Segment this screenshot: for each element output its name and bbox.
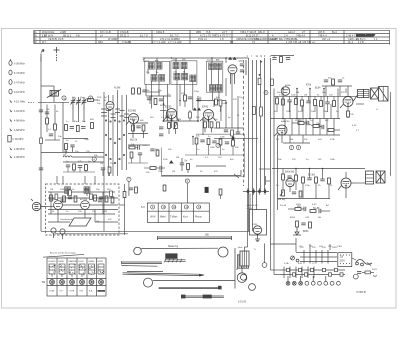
dial pulley P2 [218,247,228,257]
svg-text:1M: 1M [100,163,103,165]
dial right column [235,248,249,289]
oscillator coil L4 [63,154,80,158]
svg-text:4 68 MHz: 4 68 MHz [14,129,25,132]
svg-text:1M: 1M [50,189,53,191]
svg-text:11: 11 [256,56,259,58]
svg-text:6,3V~: 6,3V~ [253,205,259,207]
tube V6 output EL84 second [338,172,356,198]
svg-text:6 BE: 6 BE [50,291,55,293]
output transformer T2 [366,171,374,184]
svg-text:T.Mittel: T.Mittel [170,216,178,219]
AF component row upper [276,94,336,112]
svg-text:220V: 220V [372,269,378,271]
svg-text:50+50: 50+50 [280,205,287,207]
svg-text:1n: 1n [197,149,200,151]
svg-text:9: 9 [264,56,266,58]
dial scale block [164,253,186,262]
svg-text:15k: 15k [235,147,239,149]
capacitor C31 with resistor [180,158,190,173]
svg-text:47p: 47p [214,119,218,121]
IF transformer S6 [145,61,170,96]
svg-text:1k: 1k [330,185,333,187]
svg-text:220: 220 [292,159,296,161]
capacitor C12 [101,168,105,176]
ferrite antenna L1 [47,90,61,98]
tube pinout table [47,258,106,296]
trimmer capacitor C3 [82,97,87,110]
svg-text:8n2: 8n2 [230,159,234,161]
tube V1 EC92 [163,105,179,129]
svg-text:4 7: 4 7 [356,130,360,132]
svg-text:EL84: EL84 [79,261,85,263]
svg-text:8k2 5k: 8k2 5k [130,139,138,142]
svg-text:50p: 50p [216,97,220,99]
svg-text:12p: 12p [72,97,76,99]
extra table text [58,30,359,44]
svg-text:EF41: EF41 [202,105,209,109]
svg-text:50: 50 [200,171,203,173]
svg-text:2 7 = 4 L2R: 2 7 = 4 L2R [168,40,182,44]
heater chain resistors [287,268,344,276]
svg-text:25k: 25k [174,71,178,73]
power supply component row [288,206,330,213]
resistor R1 [88,99,99,102]
capacitor C22 [159,99,163,101]
svg-text:B250: B250 [290,217,296,219]
resistor R21 pair [166,120,177,135]
band table labels [150,216,202,219]
resistor R40 [280,57,283,63]
heater chain rail [280,267,345,279]
wire right mid rail [272,168,365,170]
svg-text:L7: L7 [376,109,379,111]
svg-text:470: 470 [341,92,345,94]
svg-text:50p: 50p [97,103,101,105]
coupling dots on AF line [243,188,269,195]
capacitor C14 [49,134,53,136]
svg-text:2k: 2k [237,115,240,117]
wire IF coupling verticals [146,74,232,135]
svg-text:W 7: W 7 [42,41,47,44]
node arrow A [228,57,236,60]
junction dots center [151,57,227,137]
svg-text:100p: 100p [323,111,329,113]
svg-text:Skala zug: Skala zug [168,246,179,248]
voltage selector dots [340,255,350,265]
band table header nodes [151,205,202,209]
node 7 circled [127,177,131,181]
svg-text:125: 125 [312,247,316,249]
preamp resistor Rc [74,196,77,202]
svg-text:80p: 80p [74,121,78,123]
svg-text:250p: 250p [84,139,90,141]
preamp dashed enclosure [46,184,120,235]
svg-text:6M: 6M [42,282,45,284]
svg-text:220k: 220k [286,111,292,113]
dial pulley P1 [134,247,142,255]
svg-text:1M: 1M [97,100,100,102]
svg-text:EL84: EL84 [315,88,321,90]
svg-text:30: 30 [104,100,107,102]
wire rectifier feed [244,194,250,252]
svg-text:6k: 6k [156,72,159,74]
svg-text:470k: 470k [163,159,169,161]
node 5 circled [289,145,293,149]
svg-text:6k8: 6k8 [140,120,144,122]
discriminator caps [150,149,159,156]
front-end to preamp verticals [57,176,95,184]
resistor R12 [108,167,111,176]
svg-text:470: 470 [239,60,244,63]
resistor R23 [184,95,187,101]
svg-text:220p: 220p [194,91,200,93]
dial cord second run [141,246,218,249]
svg-text:UKW: UKW [150,217,156,219]
caps lower-left of V1 [159,127,163,136]
svg-text:0.1: 0.1 [276,139,280,141]
svg-text:470: 470 [108,219,112,221]
svg-text:Netz: Netz [238,246,243,249]
capacitor C23 [188,97,192,99]
antenna terminal 1 [41,50,44,63]
svg-text:4 81 MHz: 4 81 MHz [14,110,25,113]
preamp tube Va [54,201,63,214]
extra center components [165,112,240,136]
capacitor C5 [70,127,74,129]
wire antenna rail [28,96,69,102]
resistor R24 pair [202,119,213,133]
bus wires to supply [244,58,265,231]
preamp resistor Re [105,196,108,202]
svg-text:1 4 B 745 +2: 1 4 B 745 +2 [286,40,301,44]
pinout base circles [50,280,104,285]
svg-text:B+4: B+4 [332,30,337,34]
svg-text:Tonabnehmer: Tonabnehmer [60,218,74,221]
svg-text:EC92: EC92 [165,105,172,109]
resistor R9 [138,88,141,94]
wire antenna upper link [41,86,63,153]
capacitor C21 [147,98,151,100]
svg-text:7: 7 [128,177,130,181]
svg-text:ECH81: ECH81 [49,261,57,263]
tube V0 mixer ECH81 [126,109,139,132]
IF transformer S8 [206,61,222,100]
capacitor C9 [142,90,146,92]
svg-text:4: 4 [93,157,95,161]
dial pulley P3 [144,278,153,287]
cathode resistor R45 [347,111,355,117]
svg-text:1M: 1M [172,171,175,173]
bandswitch left labels [97,97,108,105]
svg-text:1n: 1n [66,211,69,213]
preamp resistor Rf [111,197,114,203]
preamp tube Vb [81,201,90,214]
capacitor C24 [197,99,201,101]
speaker LS1 [371,87,389,102]
dial rod C pointer [123,271,204,276]
node 2 circled [89,96,93,100]
band switch table [147,203,209,223]
node 6 drop wires [129,182,188,204]
svg-text:220: 220 [322,247,326,249]
svg-text:2M: 2M [296,92,299,94]
dashed box extra parts [48,190,118,222]
oscillator parts row [63,164,95,172]
svg-text:4: 4 [270,56,272,58]
IF transformer S7 [171,61,197,96]
svg-text:f1: f1 [260,56,263,58]
resistor R60 [135,187,138,193]
svg-text:327 +4: 327 +4 [322,37,331,41]
svg-text:1M log: 1M log [278,199,286,201]
svg-text:470k: 470k [330,139,336,141]
svg-text:50 3k3: 50 3k3 [308,175,316,177]
svg-text:6k: 6k [183,71,186,73]
svg-text:9 B: 9 B [80,291,84,293]
resistor R6 [91,123,94,129]
tube V4b indicator [281,87,290,96]
resistor R55 [299,191,302,197]
tube V3a AF triode [275,125,288,143]
dial cord lower run [153,279,235,281]
svg-text:6 47 MHz: 6 47 MHz [14,82,25,85]
pinout bottom text [50,290,106,293]
resistor R5 [65,144,68,155]
svg-text:W 328R: W 328R [108,37,117,41]
dial rod E [181,295,224,299]
svg-text:3n3: 3n3 [318,139,322,141]
svg-text:Ansicht auf die Fassungen: Ansicht auf die Fassungen [50,252,77,255]
svg-text:EABC80: EABC80 [69,260,78,263]
svg-text:C9GI 8: C9GI 8 [156,30,165,34]
svg-text:220k: 220k [97,97,102,99]
preamp feed line [119,184,125,235]
svg-text:E10: E10 [298,263,303,265]
tone network row [292,120,340,131]
svg-text:4 8: 4 8 [76,34,80,38]
svg-text:10n: 10n [239,97,243,99]
svg-text:50k: 50k [278,159,282,161]
svg-text:25k: 25k [146,72,150,74]
svg-text:4 86 MHz: 4 86 MHz [14,148,25,151]
preamp capacitor Cb [84,187,90,194]
svg-text:B250: B250 [303,231,309,233]
svg-text:4 16. MHz: 4 16. MHz [14,101,26,104]
table right cells [356,38,378,44]
preamp capacitor Ca [65,187,71,194]
svg-text:470k: 470k [306,85,312,87]
fuse F1 [205,187,209,193]
svg-text:D: D [35,41,37,44]
svg-text:ECC83: ECC83 [80,199,88,201]
svg-text:25k: 25k [304,139,308,141]
dial lamps [286,276,340,285]
svg-text:100: 100 [78,211,82,213]
DIN connector J1 [31,199,46,211]
svg-text:M: M [236,269,238,271]
svg-text:150p: 150p [130,119,136,121]
svg-text:9 PB: 9 PB [70,291,75,293]
chassis parallelogram [69,218,91,226]
junction dots right [282,88,325,170]
resistor R13 [46,118,49,124]
ratio det extra parts [128,145,148,163]
svg-text:25p: 25p [96,189,100,191]
wire right top rail [271,56,362,247]
svg-text:80p: 80p [158,90,162,92]
bandswitch contact bank [104,90,127,231]
resistor R14 [54,124,57,130]
svg-text:1n: 1n [66,121,69,123]
bus top labels [247,56,276,58]
tube V2 EF41 [200,105,216,129]
capacitor cluster right of S8 [239,60,247,75]
potentiometer circle Pb [60,229,65,239]
svg-text:9 A: 9 A [89,290,93,293]
mains plug [356,260,372,266]
svg-text:470: 470 [233,99,237,101]
svg-text:6: 6 [187,179,189,183]
svg-text:0.1: 0.1 [205,157,209,159]
svg-text:+185V: +185V [246,208,253,210]
svg-text:B4: B4 [230,40,234,44]
svg-text:E3BE1439NIP: E3BE1439NIP [356,33,376,37]
potentiometer circle Pa [51,228,56,238]
wire top rail [144,58,249,63]
speaker common line [390,92,392,176]
svg-text:5-6: 5-6 [141,206,145,209]
svg-text:470: 470 [214,171,218,173]
svg-text:1k5: 1k5 [318,159,322,161]
preamp capacitor Cc [68,197,72,199]
svg-text:EM80: EM80 [285,85,291,87]
resistor R61 [163,185,166,191]
ground bus bottom [41,57,250,231]
voltage selector box [338,253,352,267]
dial cord top run [158,235,232,241]
svg-text:2n: 2n [208,136,211,138]
svg-text:1 B7: 1 B7 [42,35,48,38]
svg-text:25: 25 [318,185,321,187]
trimmer capacitor C1 [71,97,76,110]
node 8 circled [296,145,300,149]
rectifier cluster [293,221,311,235]
capacitor C7 electrolytic [70,145,74,152]
svg-text:8: 8 [298,146,300,150]
svg-text:Phono: Phono [195,217,202,219]
ratio detector cluster [128,123,148,142]
svg-text:1M: 1M [104,211,107,213]
svg-text:110: 110 [340,257,344,259]
svg-text:P 89 B: P 89 B [357,290,366,294]
preamp resistor Rb [63,196,66,202]
svg-text:f: f [251,56,252,58]
svg-text:EZ80: EZ80 [98,261,104,263]
bus-mounted parts [253,61,274,116]
pinout pin dots [49,264,104,284]
svg-text:Mittel: Mittel [160,216,166,219]
svg-text:50+50: 50+50 [313,208,320,210]
svg-text:3n: 3n [222,149,225,151]
extra center wiring [55,96,244,234]
capacitor C6 [81,127,85,129]
svg-text:9 10 MHz: 9 10 MHz [14,91,25,94]
dial rod D [159,286,222,290]
rectifier section box [250,210,267,242]
svg-text:3k3: 3k3 [150,117,154,119]
svg-text:EF89: EF89 [160,105,166,107]
antenna terminal 2 [54,47,60,62]
detector component row [185,136,245,156]
volume potentiometer P1 [278,190,286,201]
dial right link [262,244,267,268]
resistor R26 vertical [219,100,222,112]
svg-text:2A: 2A [318,216,321,219]
svg-text:500k 8k2: 500k 8k2 [285,172,295,174]
mains transformer T3 [240,251,249,266]
svg-text:AM: AM [155,60,158,63]
capacitor C60 [129,188,133,190]
svg-text:5k: 5k [56,111,59,113]
svg-text:47k: 47k [196,136,200,138]
resistor R3 [65,125,68,131]
coupling dot on line [216,136,235,147]
svg-text:4 2 B: 4 2 B [358,41,364,44]
svg-text:EF89: EF89 [59,261,65,263]
junction dots tubes [163,102,227,122]
right AF rails [271,89,366,253]
svg-text:3n: 3n [66,140,69,142]
svg-text:A14 2: A14 2 [288,30,295,34]
svg-text:20p: 20p [58,136,62,138]
svg-text:1 8: 1 8 [220,37,224,41]
node triangles pair [193,108,201,111]
svg-text:40p: 40p [82,121,86,123]
svg-text:2n: 2n [276,185,279,187]
svg-text:4p7: 4p7 [104,97,108,99]
svg-text:PO2 L4: PO2 L4 [198,37,207,41]
svg-text:6.3V: 6.3V [312,204,317,206]
resistor R22 [154,99,157,105]
svg-text:50: 50 [336,111,339,113]
resistor Rg [123,192,126,198]
svg-text:220V: 220V [340,261,346,263]
switch box boundary [162,134,245,176]
svg-text:8.1 7 G: 8.1 7 G [140,35,148,38]
svg-text:5 74 MHz: 5 74 MHz [14,72,25,75]
pinout symbol doodles [49,264,104,277]
preamp capacitor Cd [99,197,103,199]
trimmer capacitor C2 [76,97,81,110]
tube V4 demod [228,65,237,84]
node 4 circled [92,157,96,161]
svg-text:100: 100 [46,109,50,111]
svg-text:1k2: 1k2 [218,157,222,159]
dial pulley P5 [249,284,256,291]
svg-text:8k2: 8k2 [196,117,200,119]
svg-text:1BL 8: 1BL 8 [258,30,265,34]
svg-text:350V: 350V [296,204,302,206]
svg-text:6,3V: 6,3V [352,125,357,127]
speaker LS2 [376,171,385,183]
svg-text:Tr: Tr [254,248,256,251]
tube V3b AF triode second [286,178,294,192]
preamp wires [46,192,119,214]
dial rod B [122,265,158,268]
svg-text:25n: 25n [92,211,96,213]
table left column glyphs [35,31,148,44]
left bus components [39,110,43,170]
